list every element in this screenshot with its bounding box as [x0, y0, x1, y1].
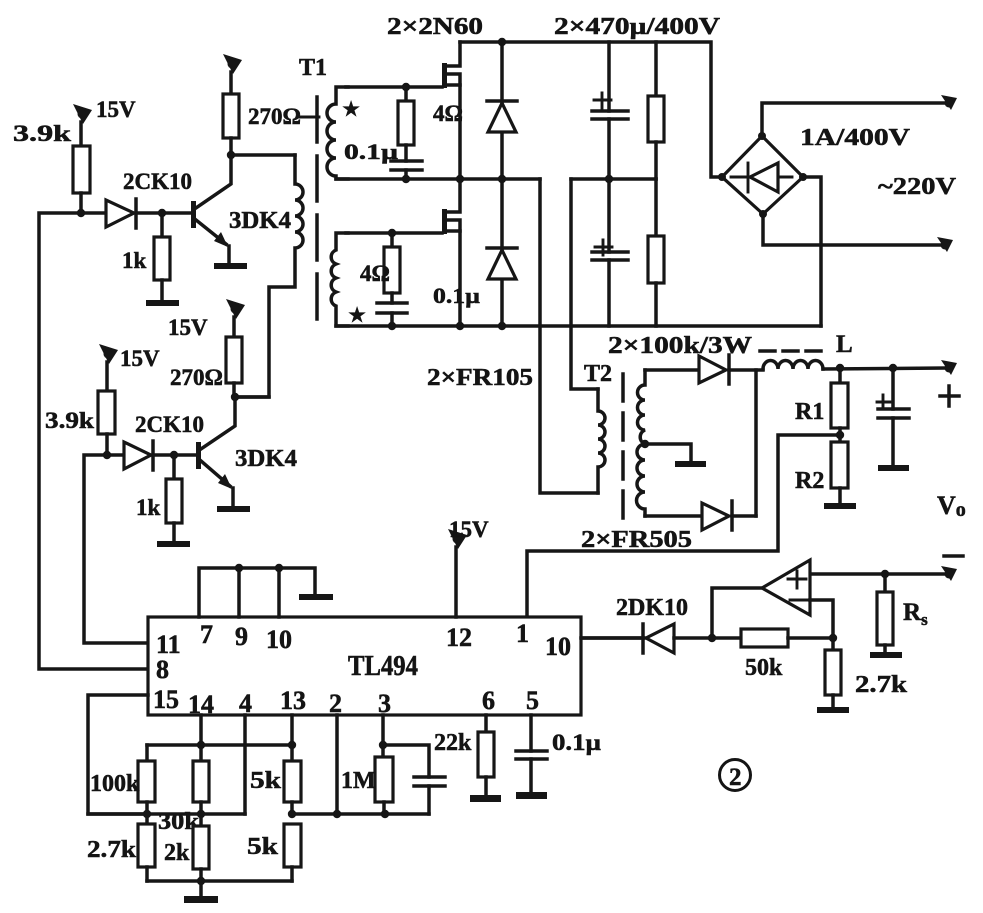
transformer T1 secondary A winding: [327, 87, 348, 179]
inductor L: [763, 361, 823, 370]
node junction 3.9k/diode: [77, 209, 85, 217]
wire node row B left: [88, 812, 245, 816]
wire pin10 output: [581, 636, 643, 640]
mid rail right segment: [571, 177, 656, 181]
wire collector to T1 primary: [231, 153, 295, 157]
op-amp U1: [762, 560, 810, 615]
bottom rail: [336, 324, 821, 328]
svg-text:2k: 2k: [164, 840, 190, 866]
svg-text:12: 12: [446, 623, 472, 652]
svg-text:~220V: ~220V: [878, 174, 957, 200]
svg-text:15V: 15V: [449, 517, 489, 542]
resistor R2: [831, 435, 848, 503]
node 50k/2.7k junction: [829, 634, 837, 642]
resistor 1k (upper): [154, 213, 170, 300]
node 2DK10/50k junction: [708, 634, 716, 642]
svg-text:2×FR105: 2×FR105: [427, 365, 533, 391]
diode FR505 (lower): [702, 501, 756, 530]
svg-text:2×2N60: 2×2N60: [387, 14, 483, 40]
svg-text:2CK10: 2CK10: [135, 412, 204, 437]
wire op-amp inverting input: [810, 600, 833, 638]
diode FR505 (upper): [699, 355, 756, 384]
svg-text:0.1µ: 0.1µ: [344, 139, 398, 164]
resistor 1k (lower): [166, 455, 182, 541]
svg-text:R2: R2: [795, 468, 824, 494]
svg-text:L: L: [836, 331, 853, 358]
wire T2 secondary top to diode: [645, 368, 699, 372]
svg-text:0.1µ: 0.1µ: [552, 730, 601, 755]
wire pins 7-9-10 tie: [199, 568, 315, 617]
transformer T2 secondary winding: [637, 370, 646, 516]
transformer T1 primary winding: [235, 155, 303, 397]
svg-text:1k: 1k: [136, 495, 161, 520]
terminal 15V supply (3.9k lower): [99, 344, 118, 391]
svg-text:1A/400V: 1A/400V: [800, 125, 911, 151]
MOSFET Q3 2N60 (upper): [442, 42, 460, 179]
MOSFET Q4 2N60 (lower): [442, 179, 460, 326]
node pin10 tie: [275, 564, 283, 572]
node bridge left: [718, 173, 726, 181]
capacitor 0.1u A: [391, 161, 422, 179]
inductor L core: [760, 349, 827, 353]
terminal AC upper: [941, 95, 957, 110]
node mosfet2 source on bottom rail: [456, 322, 464, 330]
node ground tie: [197, 877, 205, 885]
ground Q2 emitter: [217, 506, 250, 512]
symbol circled 2: [720, 760, 751, 792]
terminal 15V supply (270ohm upper): [223, 54, 242, 94]
svg-text:1k: 1k: [122, 248, 147, 273]
node pin3: [379, 741, 387, 749]
wire pin2 stub: [335, 715, 339, 814]
node 4ohm B top: [388, 229, 396, 237]
svg-text:5: 5: [526, 686, 539, 715]
node bridge bottom: [759, 210, 767, 218]
capacitor 0.1u pin5: [516, 751, 547, 792]
node 30k/2k: [197, 810, 205, 818]
wire Q2 collector to T1 primary bottom: [235, 395, 269, 399]
node collector junction Q2: [231, 393, 239, 401]
wire center tap to ground: [645, 444, 691, 461]
top rail: [460, 42, 722, 177]
svg-text:4Ω: 4Ω: [360, 261, 390, 286]
transistor Q2 3DK4: [196, 397, 235, 506]
svg-text:15: 15: [153, 685, 179, 714]
svg-text:6: 6: [482, 686, 495, 715]
wire pin15 to divider: [88, 695, 148, 814]
node FR105 lower bottom: [498, 322, 506, 330]
capacitor output electrolytic: [877, 368, 909, 465]
wire row A: [147, 743, 292, 747]
wire pin4 stub: [243, 715, 247, 814]
wire bottom tie: [147, 879, 292, 883]
wire rectifier output link: [756, 370, 763, 516]
wire pin5 stub: [529, 715, 533, 751]
svg-text:0.1µ: 0.1µ: [433, 283, 480, 308]
node pin14 row A: [197, 741, 205, 749]
diode FR105 (upper): [487, 42, 517, 179]
svg-text:1: 1: [516, 619, 529, 648]
wire T2 secondary bottom to diode: [645, 514, 702, 518]
resistor 30k: [193, 761, 209, 814]
resistor 1M: [375, 757, 393, 814]
resistor 100k: [138, 745, 155, 814]
svg-text:★: ★: [349, 305, 366, 325]
wire pin14 stub: [199, 715, 203, 761]
mid rail left segment: [336, 177, 540, 181]
svg-text:2×470µ/400V: 2×470µ/400V: [554, 14, 721, 40]
svg-text:T2: T2: [584, 361, 612, 387]
terminal 15V supply (270ohm lower): [226, 299, 245, 337]
node L/R1: [836, 364, 844, 372]
ground pins tie: [299, 594, 333, 600]
svg-text:3DK4: 3DK4: [229, 208, 291, 234]
svg-text:2CK10: 2CK10: [123, 169, 192, 194]
resistor 3.9k (upper): [73, 146, 90, 213]
node 100k/2.7k: [143, 810, 151, 818]
transformer T2 primary winding: [598, 389, 605, 493]
svg-text:100k: 100k: [90, 771, 140, 797]
diode 2DK10: [581, 624, 712, 653]
terminal AC lower: [937, 237, 953, 252]
node Rs top: [881, 570, 889, 578]
transformer T1 secondary B winding: [331, 233, 348, 326]
wire pin6 stub: [484, 715, 488, 732]
wire bridge bottom to AC terminal: [763, 214, 941, 245]
diode 2CK10 (upper): [81, 199, 192, 228]
ground 1k lower: [157, 541, 190, 547]
resistor bleeder 100k/3W (lower): [648, 179, 664, 326]
capacitor 0.1u B: [377, 303, 407, 326]
svg-text:10: 10: [545, 632, 571, 661]
svg-text:7: 7: [200, 620, 213, 649]
node pin9 tie: [235, 564, 243, 572]
node cap B bottom: [388, 322, 396, 330]
IC TL494: [148, 617, 581, 715]
wire half-bridge midpoint to T2 primary bottom: [540, 179, 598, 493]
ground divider: [184, 881, 218, 903]
bridge rectifier 1A/400V: [722, 136, 803, 214]
svg-text:5k: 5k: [250, 768, 282, 794]
wire op-amp output: [712, 588, 762, 638]
ground 22k: [470, 795, 501, 802]
resistor 2.7k (divider): [138, 814, 155, 881]
node 5k/5k: [288, 810, 296, 818]
wire node row B right: [292, 812, 429, 816]
resistor 5k upper: [284, 761, 301, 814]
node base junction Q1: [158, 209, 166, 217]
capacitor 470u (upper): [592, 42, 628, 179]
transformer T1 core: [315, 97, 319, 330]
capacitor 470u (lower): [592, 179, 628, 326]
leader line to T1 core: [299, 116, 319, 119]
svg-text:5k: 5k: [247, 834, 279, 860]
capacitor pin3: [383, 745, 445, 814]
transformer T2 core: [621, 374, 625, 519]
wire gate A top: [346, 85, 442, 89]
label minus output: [944, 554, 963, 558]
node bridge right: [799, 173, 807, 181]
wire pin9 stub: [237, 568, 241, 617]
resistor 4ohm B: [384, 233, 400, 303]
resistor 270ohm (lower): [226, 337, 242, 397]
transistor Q1 3DK4: [191, 155, 231, 263]
ground R2: [824, 503, 856, 509]
node FR105 upper top: [498, 38, 506, 46]
terminal 15V supply (3.9k upper): [73, 104, 92, 146]
svg-text:★: ★: [343, 99, 360, 119]
svg-text:15V: 15V: [168, 315, 208, 340]
wire pin10 stub: [277, 568, 281, 617]
ground Rs: [870, 652, 902, 658]
wire gate B top: [346, 231, 442, 235]
resistor 2k: [193, 814, 209, 881]
resistor bleeder 100k/3W (upper): [648, 42, 664, 179]
resistor 270ohm (upper): [223, 94, 239, 155]
label plus output: [940, 386, 959, 406]
node FR105 junction mid rail: [498, 175, 506, 183]
node pin13 row A: [288, 741, 296, 749]
node cap1 bottom: [605, 175, 613, 183]
svg-text:2: 2: [729, 764, 742, 791]
node output cap top: [889, 364, 897, 372]
resistor 50k: [712, 629, 833, 647]
svg-text:3.9k: 3.9k: [45, 408, 94, 433]
terminal 15V pin12: [448, 529, 467, 617]
diode 2CK10 (lower): [107, 441, 196, 470]
diode FR105 (lower): [487, 179, 517, 326]
resistor Rs: [877, 574, 893, 652]
wire node to pin11 net: [84, 455, 148, 643]
node R1/R2 junction: [836, 431, 844, 439]
svg-text:15V: 15V: [120, 346, 160, 371]
ground 1k upper: [146, 300, 179, 306]
resistor 2.7k (comparator): [825, 638, 841, 707]
svg-text:270Ω: 270Ω: [170, 365, 223, 390]
svg-text:2DK10: 2DK10: [616, 595, 688, 621]
ground T2 center tap: [675, 461, 706, 467]
svg-text:13: 13: [280, 686, 306, 715]
svg-text:50k: 50k: [745, 655, 783, 681]
resistor R1: [831, 368, 848, 435]
svg-text:2.7k: 2.7k: [87, 837, 137, 863]
svg-text:15V: 15V: [96, 97, 136, 122]
node junction 3.9k lower/diode: [103, 451, 111, 459]
resistor 5k lower: [284, 824, 301, 881]
node cap A bottom: [402, 175, 410, 183]
wire pin3 stub: [381, 715, 385, 757]
terminal output plus: [941, 360, 957, 375]
svg-text:3.9k: 3.9k: [13, 121, 71, 146]
ground output cap: [878, 465, 909, 471]
wire bridge right to bottom rail: [803, 177, 821, 326]
svg-text:22k: 22k: [434, 730, 472, 756]
resistor 4ohm A: [398, 87, 414, 161]
svg-text:9: 9: [235, 622, 248, 651]
resistor 22k: [478, 732, 494, 795]
wire L to output terminal: [823, 368, 945, 369]
node base junction Q2: [170, 451, 178, 459]
svg-text:2.7k: 2.7k: [855, 672, 908, 698]
wire node to pin8 net: [39, 213, 148, 669]
ground 0.1u pin5: [516, 792, 547, 799]
svg-text:3DK4: 3DK4: [235, 446, 297, 472]
node mosfet1 source on mid rail: [456, 175, 464, 183]
node pin2 row B: [333, 810, 341, 818]
node 1M bottom: [381, 810, 389, 818]
wire cap divider midpoint to T2 primary top: [571, 179, 598, 389]
node T2 center tap: [641, 440, 649, 448]
wire negative sense to terminal: [810, 572, 945, 576]
node bridge top: [758, 132, 766, 140]
svg-text:270Ω: 270Ω: [248, 104, 301, 129]
resistor 3.9k (lower): [98, 391, 115, 455]
svg-text:10: 10: [266, 625, 292, 654]
node 4ohm A top: [402, 83, 410, 91]
svg-text:2×FR505: 2×FR505: [581, 527, 692, 553]
ground 2.7k: [817, 707, 849, 713]
svg-text:1M: 1M: [341, 768, 376, 794]
svg-text:R1: R1: [795, 399, 824, 425]
ground Q1 emitter: [214, 263, 247, 269]
svg-text:TL494: TL494: [348, 651, 418, 682]
terminal output minus: [941, 566, 957, 581]
node collector junction Q1: [227, 151, 235, 159]
feedback wire R1R2 junction to pin1: [527, 435, 840, 617]
wire pin13 stub: [290, 715, 294, 761]
wire bridge top to AC terminal: [762, 103, 945, 136]
svg-text:8: 8: [156, 655, 169, 684]
svg-text:T1: T1: [299, 55, 327, 81]
